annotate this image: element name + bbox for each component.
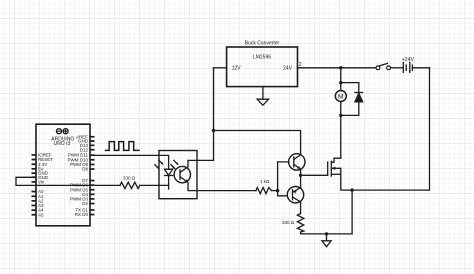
svg-text:M: M xyxy=(338,94,344,101)
svg-text:A5: A5 xyxy=(38,212,44,217)
svg-text:D8: D8 xyxy=(82,167,88,172)
svg-text:1 kΩ: 1 kΩ xyxy=(260,179,270,184)
svg-text:D2: D2 xyxy=(82,201,88,206)
svg-text:2: 2 xyxy=(299,62,302,68)
svg-text:UNO r3: UNO r3 xyxy=(54,141,71,147)
svg-text:330 Ω: 330 Ω xyxy=(123,176,136,181)
svg-text:Vin: Vin xyxy=(38,180,45,185)
svg-text:24V: 24V xyxy=(283,66,293,72)
svg-text:RX D0: RX D0 xyxy=(75,212,89,217)
svg-text:+24V: +24V xyxy=(402,57,415,63)
svg-text:Buck Converter: Buck Converter xyxy=(245,41,280,47)
svg-text:LM2596: LM2596 xyxy=(253,55,271,61)
svg-text:330 Ω: 330 Ω xyxy=(282,220,295,225)
svg-text:D12: D12 xyxy=(80,147,89,152)
svg-text:12V: 12V xyxy=(232,66,242,72)
